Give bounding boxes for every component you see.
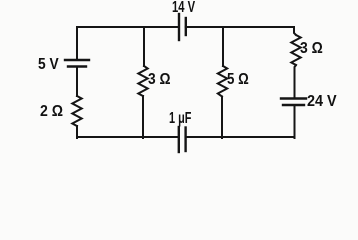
- label 14 V: [172, 0, 195, 16]
- wire bottom-left segment: [77, 136, 179, 138]
- wire branch B upper: [222, 27, 224, 66]
- wire left lower: [76, 126, 78, 138]
- wire right lower: [294, 106, 296, 138]
- wire top-right segment: [186, 26, 294, 28]
- wire top-left segment: [77, 26, 179, 28]
- battery 24 V long plate: [281, 97, 306, 99]
- label 5 V: [38, 57, 59, 73]
- label 3 ohm right: [300, 41, 323, 57]
- wire branch A lower: [142, 96, 144, 138]
- resistor 2 ohm: [72, 96, 81, 126]
- battery 24 V short plate: [283, 104, 304, 106]
- label 2 ohm: [40, 104, 63, 120]
- wire left middle: [76, 67, 78, 96]
- battery 14 V short plate: [185, 18, 187, 35]
- resistor 3 ohm middle: [138, 66, 147, 96]
- capacitor 1 uF right plate: [184, 128, 186, 152]
- label 1 uF: [169, 111, 191, 127]
- label 3 ohm middle: [148, 72, 171, 88]
- label 5 ohm: [227, 72, 249, 88]
- capacitor 1 uF left plate: [178, 127, 180, 152]
- battery 14 V long plate: [178, 14, 180, 40]
- resistor 3 ohm right: [291, 35, 300, 65]
- wire branch B lower: [221, 97, 223, 139]
- wire right upper: [294, 27, 296, 35]
- battery 5 V short plate: [68, 65, 86, 67]
- wire right middle: [295, 65, 297, 98]
- wire left upper: [76, 27, 78, 59]
- wire branch A upper: [143, 27, 145, 66]
- wire bottom-right segment: [186, 136, 294, 138]
- label 24 V: [307, 94, 337, 110]
- resistor 5 ohm: [218, 66, 227, 97]
- battery 5 V long plate: [65, 59, 89, 61]
